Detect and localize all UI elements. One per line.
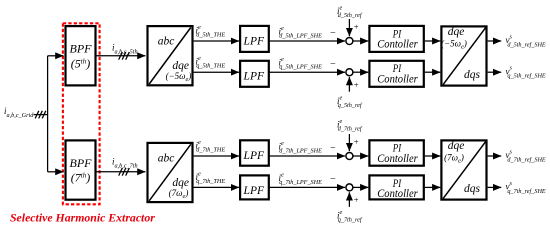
wire out d7 [488,155,502,157]
svg-text:Contoller: Contoller [377,73,418,85]
wire summer to PI d5 [353,40,368,42]
svg-text:+: + [353,136,359,146]
svg-text:−: − [330,174,337,185]
svg-text:+: + [353,80,359,90]
wire ref into summer q7 [348,192,350,207]
wire vertical bus [47,56,49,172]
wire ref into summer d7 [348,134,350,151]
svg-text:−: − [330,143,337,154]
wire abc to LPF d5 [194,40,239,42]
wire ref into summer q5 [348,77,350,92]
svg-text:LPF: LPF [243,69,265,83]
block abc-dqe 7th [148,143,193,202]
block BPF 5th [66,26,96,85]
wire summer to PI q7 [353,186,368,188]
block PI controller q7 [369,175,423,200]
svg-text:(5th): (5th) [71,56,90,70]
svg-text:abc: abc [158,152,175,164]
summer d5 [346,38,353,45]
wire LPF to summer d7 [269,155,345,157]
dashed box Selective Harmonic Extractor [63,23,100,204]
wire into BPF 5th [48,55,64,57]
wire BPF7 to abc7 [97,171,146,173]
svg-text:LPF: LPF [243,148,265,162]
wire abc to LPF q5 [194,71,239,73]
block LPF d7 [240,140,269,165]
svg-text:dqs: dqs [464,183,481,195]
svg-text:abc: abc [158,36,175,48]
svg-text:+: + [353,195,359,205]
block dqe-dqs 7th [441,140,486,199]
svg-text:+: + [353,21,359,31]
svg-text:−: − [330,59,337,70]
svg-text:Selective Harmonic Extractor: Selective Harmonic Extractor [10,211,155,225]
block dqe-dqs 5th [441,26,486,85]
svg-text:(7th): (7th) [71,171,90,185]
svg-text:BPF: BPF [70,156,93,170]
slash marks i_abc_7th [119,168,130,176]
svg-text:Contoller: Contoller [377,38,418,50]
block BPF 7th [66,140,96,199]
wire summer to PI d7 [353,155,368,157]
svg-text:dqe: dqe [448,140,465,152]
slash marks grid input [35,111,46,119]
wire abc to LPF d7 [194,155,239,157]
block LPF q7 [240,175,269,199]
wire out q7 [488,186,502,188]
block PI controller d7 [369,140,423,165]
wire PI to dq d5 [425,40,440,42]
wire PI to dq d7 [425,155,440,157]
wire LPF to summer q5 [269,71,345,73]
svg-text:dqe: dqe [448,26,465,38]
wire into BPF 7th [48,171,64,173]
block PI controller q5 [369,61,423,87]
wire LPF to summer d5 [269,40,345,42]
wire abc to LPF q7 [194,186,239,188]
block PI controller d5 [369,26,423,52]
slash marks i_abc_5th [119,52,130,60]
wire BPF5 to abc5 [97,55,146,57]
summer q7 [346,184,353,191]
wire summer to PI q5 [353,71,368,73]
block LPF q5 [240,61,269,87]
summer q5 [346,69,353,76]
svg-text:Contoller: Contoller [377,153,418,165]
svg-text:LPF: LPF [243,183,265,197]
wire grid input lead [34,114,48,116]
wire LPF to summer q7 [269,186,345,188]
svg-text:LPF: LPF [243,34,265,48]
wire out q5 [488,71,502,73]
wire PI to dq q5 [425,71,440,73]
svg-text:dqs: dqs [464,69,481,81]
wire ref into summer d5 [348,19,350,36]
svg-text:BPF: BPF [70,42,93,56]
wire out d5 [488,40,502,42]
svg-text:−: − [330,28,337,39]
svg-text:Contoller: Contoller [377,188,418,200]
wire PI to dq q7 [425,186,440,188]
summer d7 [346,153,353,160]
block abc-dqe 5th [148,26,193,85]
block LPF d5 [240,26,269,52]
